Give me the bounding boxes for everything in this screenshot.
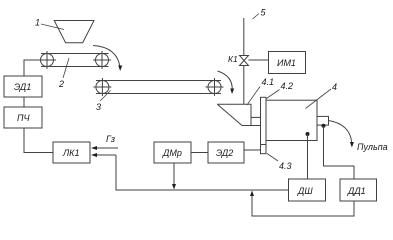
svg-text:ЛК1: ЛК1 <box>62 148 79 158</box>
block ИМ1 <box>269 52 306 74</box>
wire mill node to ДШ <box>307 134 309 179</box>
block ЭД1 <box>4 76 42 97</box>
flange 4.3 <box>261 144 267 146</box>
svg-text:ДШ: ДШ <box>297 186 313 196</box>
wire ЭД1 to ПЧ <box>23 97 25 107</box>
conveyor 1 belt <box>41 54 109 67</box>
transfer arrow conveyor1 to conveyor2 <box>93 46 122 72</box>
wire ДМр down to bus with arrow <box>172 163 176 190</box>
conveyor 2 left roller <box>93 78 111 96</box>
svg-text:3: 3 <box>96 102 101 112</box>
wire ПЧ to ЛК1 <box>24 128 53 153</box>
svg-text:4.1: 4.1 <box>262 77 275 87</box>
svg-text:2: 2 <box>58 79 64 89</box>
conveyor 2 belt <box>96 81 221 94</box>
svg-text:4.3: 4.3 <box>279 161 292 171</box>
discharge box <box>317 116 329 125</box>
mill journal 4.2 <box>261 97 267 153</box>
label 4.1 <box>247 77 274 105</box>
label 3 <box>96 91 111 113</box>
block ДД1 <box>340 179 377 201</box>
pulp outflow arrow <box>329 121 388 153</box>
label 2 <box>58 58 69 89</box>
svg-text:ДД1: ДД1 <box>347 186 366 196</box>
conveyor 1 left roller <box>38 51 56 69</box>
label 4.3 <box>267 154 292 172</box>
svg-text:4: 4 <box>332 82 337 92</box>
label 4 <box>306 82 338 109</box>
svg-text:ЭД1: ЭД1 <box>14 82 31 92</box>
wire ЭД2 to mill journal <box>244 149 261 151</box>
wire valve to ИМ1 <box>249 59 269 61</box>
conveyor 1 right roller <box>93 51 111 69</box>
svg-text:1: 1 <box>35 18 40 28</box>
block ЭД2 <box>208 142 244 163</box>
svg-text:ИМ1: ИМ1 <box>277 58 296 68</box>
wire discharge node to ДД1 <box>324 126 355 179</box>
label 5 <box>253 8 267 20</box>
sensor node on mill shell <box>306 132 310 136</box>
wire roller1 to ЭД1 <box>24 60 40 76</box>
svg-text:ЭД2: ЭД2 <box>216 148 233 158</box>
transfer arrow conveyor2 to mill funnel <box>218 71 235 94</box>
label 1 <box>35 18 64 30</box>
funnel 4.1 <box>217 104 260 125</box>
label 4.2 <box>267 81 294 99</box>
block ДМр <box>154 142 191 163</box>
block ЛК1 <box>53 142 90 163</box>
block ДШ <box>289 179 326 201</box>
svg-text:К1: К1 <box>228 54 238 64</box>
feed line 5 <box>243 18 245 56</box>
svg-text:ДМр: ДМр <box>162 148 182 158</box>
feedback bus wire <box>116 155 289 190</box>
wire ДМр to ЭД2 <box>191 152 208 154</box>
setpoint Гз input <box>91 134 118 150</box>
block ПЧ <box>4 107 42 128</box>
wire ДД1 loop to bus with up arrow <box>250 191 354 217</box>
sensor node on discharge <box>322 124 326 128</box>
svg-text:4.2: 4.2 <box>281 81 294 91</box>
feedback input arrow <box>91 153 116 157</box>
svg-text:5: 5 <box>261 8 267 18</box>
feed pipe into funnel <box>243 66 245 105</box>
mill drum 4 <box>266 100 317 140</box>
hopper 1 <box>54 21 94 43</box>
valve К1 <box>240 56 249 66</box>
svg-text:Гз: Гз <box>106 134 115 144</box>
conveyor 2 right roller <box>206 78 224 96</box>
svg-text:Пульпа: Пульпа <box>357 142 388 152</box>
svg-text:ПЧ: ПЧ <box>17 113 31 123</box>
